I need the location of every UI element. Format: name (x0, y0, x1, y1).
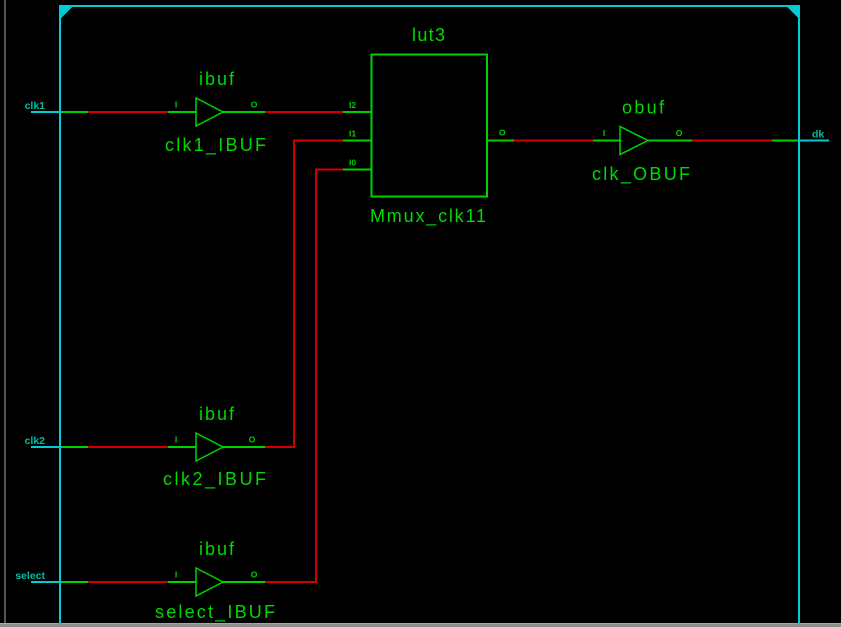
wire obuf O to port dk (648, 140, 800, 142)
svg-text:clk2_IBUF: clk2_IBUF (163, 469, 266, 490)
svg-text:clk1_IBUF: clk1_IBUF (165, 135, 266, 156)
svg-text:clk2: clk2 (25, 435, 46, 447)
obuf U_clk (592, 98, 690, 186)
svg-text:clk1: clk1 (25, 100, 46, 112)
svg-text:select_IBUF: select_IBUF (155, 602, 275, 623)
wire clk2_IBUF O to lut3 I1 (223, 140, 344, 448)
svg-text:select: select (15, 570, 45, 582)
ibuf U_clk2 (163, 404, 266, 490)
wire lut3 O to obuf input (514, 140, 621, 142)
svg-text:I: I (175, 435, 177, 445)
svg-text:O: O (249, 435, 256, 445)
svg-text:clk_OBUF: clk_OBUF (592, 164, 690, 185)
svg-text:lut3: lut3 (412, 25, 445, 45)
svg-text:dk: dk (812, 129, 824, 141)
svg-text:obuf: obuf (622, 98, 665, 118)
svg-text:I: I (175, 100, 177, 110)
svg-text:O: O (499, 128, 506, 138)
wire select_IBUF O to lut3 I0 (223, 169, 344, 583)
svg-text:I2: I2 (349, 100, 356, 110)
svg-text:O: O (676, 128, 683, 138)
svg-text:ibuf: ibuf (199, 404, 235, 424)
wire clk1_IBUF O to lut3 I2 (223, 111, 344, 113)
wire clk2 to ibuf input (61, 446, 196, 448)
port clk2 (25, 435, 63, 447)
wire clk1 to ibuf input (61, 111, 196, 113)
svg-text:ibuf: ibuf (199, 69, 235, 89)
port select (15, 570, 63, 582)
svg-text:ibuf: ibuf (199, 539, 235, 559)
port dk (798, 129, 829, 141)
lut3 Mmux_clk11 (343, 25, 514, 227)
svg-text:I: I (603, 128, 605, 138)
svg-text:Mmux_clk11: Mmux_clk11 (370, 206, 486, 227)
svg-text:I1: I1 (349, 129, 356, 139)
ibuf U_select (155, 539, 275, 623)
port clk1 (25, 100, 63, 112)
ibuf U_clk1 (165, 69, 266, 156)
svg-text:O: O (251, 100, 258, 110)
svg-text:I: I (175, 570, 177, 580)
svg-text:O: O (251, 570, 258, 580)
wire select to ibuf input (61, 581, 196, 583)
svg-text:I0: I0 (349, 158, 356, 168)
